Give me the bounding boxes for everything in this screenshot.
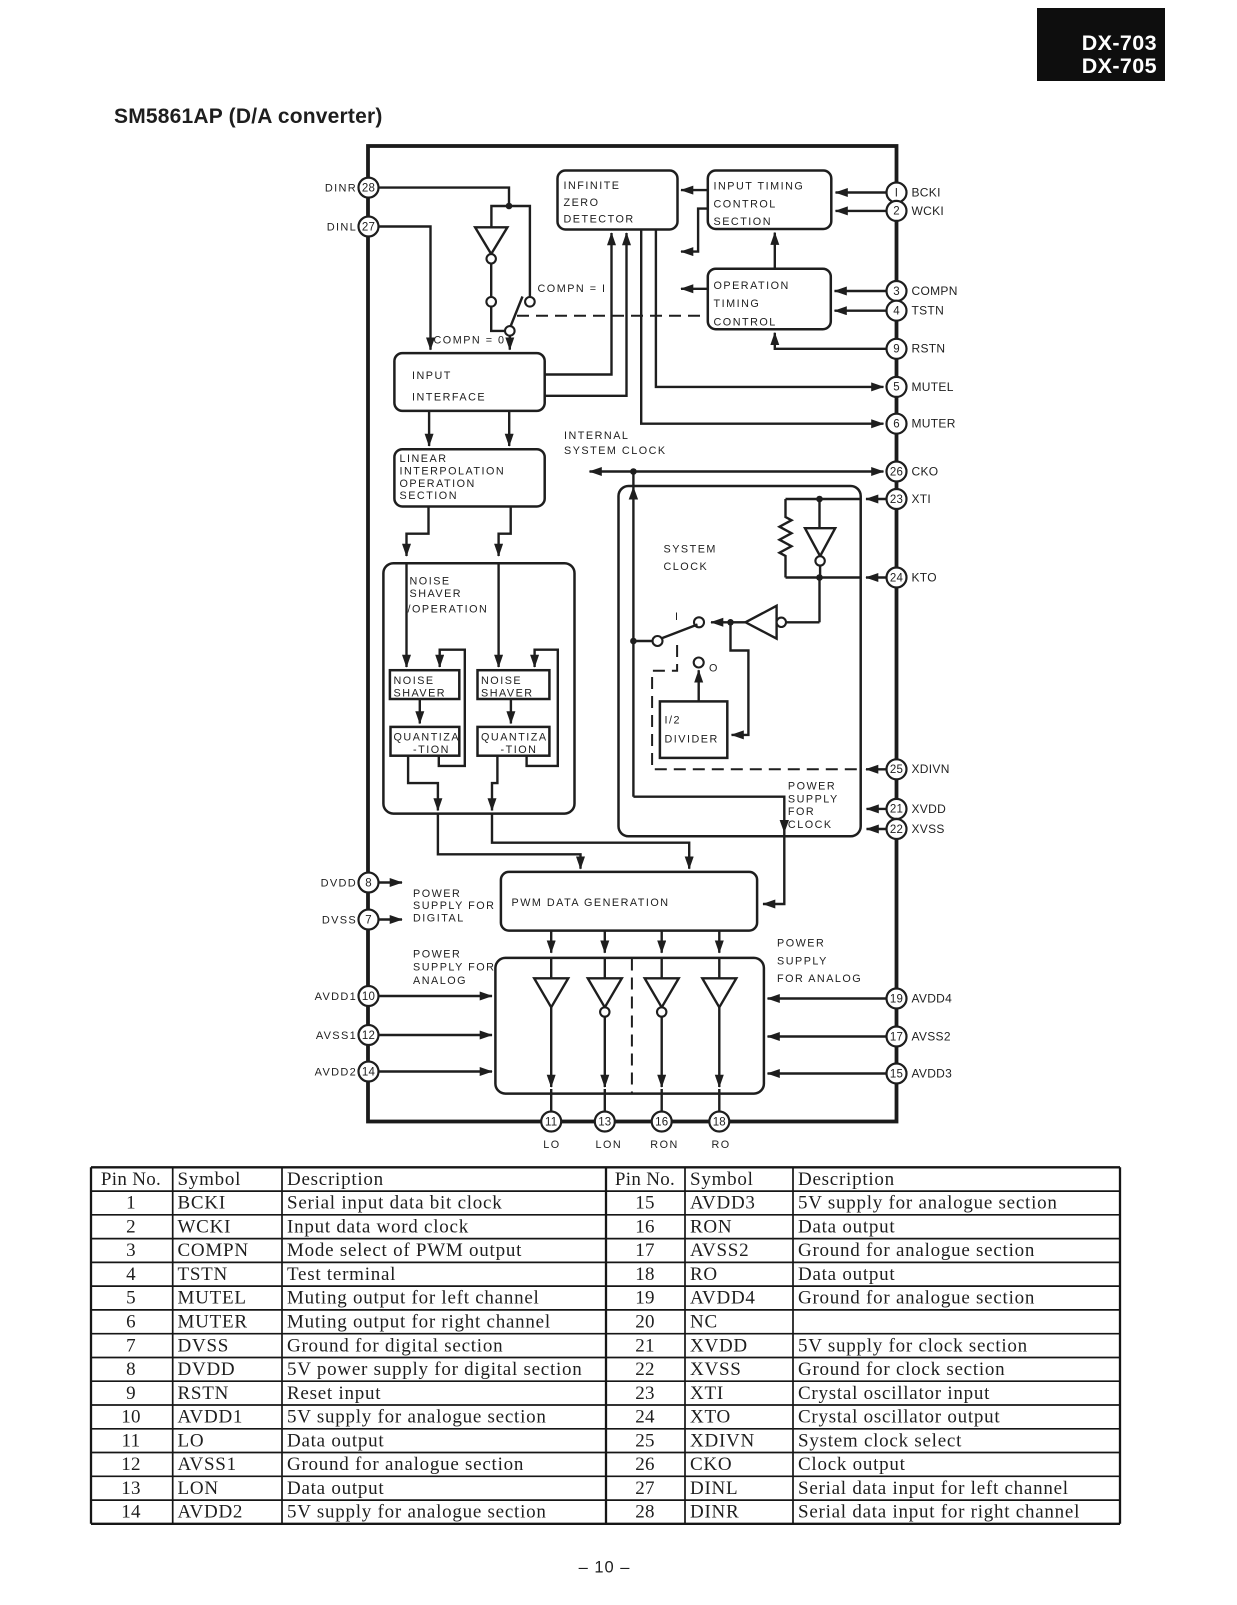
svg-text:POWER: POWER: [777, 938, 825, 950]
pin 25 XDIVN: [866, 759, 950, 779]
svg-text:3: 3: [126, 1240, 136, 1261]
svg-text:SUPPLY FOR: SUPPLY FOR: [413, 962, 495, 974]
pin 5 MUTEL: [887, 377, 954, 397]
node KTO junction: [816, 574, 823, 581]
svg-text:MUTER: MUTER: [178, 1312, 248, 1333]
svg-text:Serial input data bit clock: Serial input data bit clock: [287, 1193, 502, 1214]
svg-text:RSTN: RSTN: [178, 1383, 230, 1404]
wire input interface to zero detector B: [545, 233, 627, 396]
svg-text:RO: RO: [690, 1264, 718, 1285]
svg-text:22: 22: [635, 1359, 655, 1380]
pin 27 DINL: [327, 217, 379, 237]
svg-text:DX-705: DX-705: [1082, 54, 1157, 78]
svg-text:I/2: I/2: [665, 715, 682, 727]
wire operation timing output: [681, 288, 708, 290]
svg-text:Pin No.: Pin No.: [101, 1169, 161, 1190]
svg-text:XTI: XTI: [690, 1383, 724, 1404]
switch contact COMPN=0 side: [486, 297, 496, 307]
amp LO: [534, 958, 568, 1112]
svg-text:12: 12: [362, 1030, 375, 1042]
svg-text:Muting output for right channe: Muting output for right channel: [287, 1312, 551, 1333]
svg-text:Symbol: Symbol: [690, 1169, 754, 1190]
svg-text:XVSS: XVSS: [912, 822, 945, 836]
svg-text:XTI: XTI: [912, 492, 932, 506]
model badge DX-703/DX-705: [1037, 8, 1165, 81]
amp RO: [702, 958, 736, 1112]
svg-text:CKO: CKO: [690, 1454, 732, 1475]
svg-text:19: 19: [890, 993, 903, 1005]
wire buffer to divider input: [731, 622, 749, 735]
svg-text:20: 20: [635, 1312, 655, 1333]
clock select contact half: [694, 658, 704, 668]
block operation timing control: [708, 269, 831, 330]
svg-text:26: 26: [890, 466, 903, 478]
pin description table: [91, 1167, 1120, 1524]
svg-text:DIVIDER: DIVIDER: [665, 734, 719, 746]
svg-text:16: 16: [635, 1216, 655, 1237]
svg-text:DINR: DINR: [325, 183, 357, 195]
svg-text:21: 21: [635, 1335, 655, 1356]
wire KTO to buffer: [818, 578, 820, 623]
svg-text:WCKI: WCKI: [912, 204, 945, 218]
svg-text:18: 18: [635, 1264, 655, 1285]
svg-text:DVSS: DVSS: [178, 1335, 230, 1356]
svg-text:14: 14: [362, 1066, 376, 1078]
svg-text:Ground for digital section: Ground for digital section: [287, 1335, 503, 1356]
dashed COMPN control line: [517, 315, 708, 317]
junction bus: [506, 203, 513, 210]
svg-text:MUTEL: MUTEL: [912, 380, 954, 394]
svg-text:BCKI: BCKI: [178, 1193, 226, 1214]
svg-text:INFINITE: INFINITE: [564, 180, 621, 192]
svg-text:LO: LO: [178, 1430, 205, 1451]
pin 28 DINR: [325, 178, 379, 198]
svg-text:6: 6: [126, 1312, 136, 1333]
wire into noise shaver L: [405, 563, 407, 667]
svg-text:COMPN: COMPN: [912, 284, 958, 298]
wire zero detector to MUTER: [641, 230, 883, 424]
svg-text:Pin No.: Pin No.: [615, 1169, 675, 1190]
svg-text:25: 25: [890, 764, 903, 776]
svg-text:9: 9: [126, 1383, 136, 1404]
wire zero detector to MUTEL: [656, 230, 884, 387]
svg-text:TSTN: TSTN: [912, 304, 945, 318]
inverter (data complement): [475, 227, 507, 263]
pin 11 LO: [541, 1112, 561, 1152]
svg-text:COMPN: COMPN: [178, 1240, 249, 1261]
block quantization left: [391, 727, 461, 756]
svg-text:9: 9: [893, 344, 900, 356]
svg-text:QUANTIZA: QUANTIZA: [481, 732, 548, 744]
svg-text:LON: LON: [596, 1139, 623, 1151]
svg-text:24: 24: [890, 572, 904, 584]
svg-text:8: 8: [126, 1359, 136, 1380]
svg-text:13: 13: [121, 1478, 141, 1499]
label internal system clock: [564, 430, 667, 457]
svg-text:12: 12: [121, 1454, 141, 1475]
svg-text:7: 7: [365, 914, 372, 926]
block infinite zero detector: [558, 171, 678, 230]
pin 13 LON: [595, 1112, 622, 1152]
svg-text:COMPN = 0: COMPN = 0: [434, 335, 506, 347]
svg-text:28: 28: [362, 182, 375, 194]
svg-text:RON: RON: [650, 1139, 679, 1151]
svg-text:SHAVER: SHAVER: [410, 588, 463, 600]
pin 9 RSTN: [775, 333, 946, 359]
wire pole to input interface: [509, 336, 511, 350]
svg-text:CLOCK: CLOCK: [788, 819, 833, 831]
svg-text:SECTION: SECTION: [400, 490, 459, 502]
svg-text:Crystal oscillator output: Crystal oscillator output: [798, 1407, 1000, 1428]
wire noise shaver to quantization L: [419, 699, 421, 724]
svg-text:Serial data input for right ch: Serial data input for right channel: [798, 1502, 1080, 1523]
svg-text:LO: LO: [543, 1139, 560, 1151]
wire contact to pole: [491, 307, 505, 331]
pin 12 AVSS1: [316, 1025, 492, 1045]
svg-text:3: 3: [893, 286, 900, 298]
svg-text:TIMING: TIMING: [714, 298, 761, 310]
svg-text:15: 15: [635, 1193, 655, 1214]
svg-text:Test terminal: Test terminal: [287, 1264, 396, 1285]
svg-text:Data output: Data output: [287, 1478, 384, 1499]
svg-text:O: O: [709, 663, 719, 675]
block linear interpolation operation section: [394, 449, 544, 506]
svg-text:CONTROL: CONTROL: [714, 316, 777, 328]
svg-text:5V supply for analogue section: 5V supply for analogue section: [798, 1193, 1058, 1214]
pin 16 RON: [650, 1112, 679, 1152]
svg-text:Ground for analogue section: Ground for analogue section: [798, 1240, 1035, 1261]
svg-text:Crystal oscillator input: Crystal oscillator input: [798, 1383, 990, 1404]
svg-text:POWER: POWER: [413, 888, 461, 900]
svg-text:AVSS2: AVSS2: [690, 1240, 749, 1261]
svg-text:LINEAR: LINEAR: [400, 453, 448, 465]
switch pole: [505, 297, 523, 336]
svg-text:QUANTIZA: QUANTIZA: [394, 732, 461, 744]
svg-text:INTERPOLATION: INTERPOLATION: [400, 465, 506, 477]
svg-text:Serial data input for left cha: Serial data input for left channel: [798, 1478, 1069, 1499]
svg-text:5V power supply for digital se: 5V power supply for digital section: [287, 1359, 583, 1380]
wire internal system clock to CKO: [590, 468, 884, 475]
svg-text:Description: Description: [287, 1169, 384, 1190]
pin 18 RO: [709, 1112, 730, 1152]
svg-text:10: 10: [121, 1407, 141, 1428]
wire DINR to COMPN switch bus: [379, 188, 510, 206]
block analog output: [495, 958, 764, 1094]
svg-text:24: 24: [635, 1407, 655, 1428]
svg-text:28: 28: [635, 1502, 655, 1523]
svg-text:SUPPLY: SUPPLY: [777, 956, 828, 968]
svg-text:XDIVN: XDIVN: [912, 762, 950, 776]
pin 10 AVDD1: [315, 986, 492, 1006]
svg-text:CLOCK: CLOCK: [664, 561, 709, 573]
svg-text:18: 18: [713, 1116, 726, 1128]
wire interface to interpolation A: [428, 411, 430, 446]
svg-text:11: 11: [122, 1430, 141, 1451]
svg-text:AVDD2: AVDD2: [178, 1502, 244, 1523]
svg-text:AVSS2: AVSS2: [912, 1029, 951, 1043]
svg-text:AVDD4: AVDD4: [912, 991, 953, 1005]
svg-text:FOR: FOR: [788, 806, 815, 818]
amp LON: [588, 958, 622, 1112]
svg-text:Muting output for left channel: Muting output for left channel: [287, 1288, 540, 1309]
pin 17 AVSS2: [768, 1027, 951, 1047]
IC outline box: [368, 146, 897, 1122]
svg-text:Clock output: Clock output: [798, 1454, 906, 1475]
svg-text:OPERATION: OPERATION: [400, 478, 476, 490]
svg-text:16: 16: [655, 1116, 668, 1128]
pin 2 WCKI: [836, 201, 945, 221]
label power supply for digital: [413, 888, 495, 925]
pin 21 XVDD: [867, 799, 947, 819]
wire quantization L out: [408, 756, 580, 869]
svg-text:ANALOG: ANALOG: [413, 975, 467, 987]
wire quantization R out: [492, 756, 689, 869]
svg-text:FOR ANALOG: FOR ANALOG: [777, 973, 862, 985]
svg-text:AVDD2: AVDD2: [315, 1066, 357, 1078]
block PWM data generation: [501, 872, 757, 931]
svg-text:6: 6: [893, 419, 900, 431]
svg-text:XVDD: XVDD: [912, 802, 947, 816]
svg-text:Ground for analogue section: Ground for analogue section: [287, 1454, 524, 1475]
pin 14 AVDD2: [315, 1062, 492, 1082]
wire interface to interpolation B: [508, 411, 510, 446]
svg-text:2: 2: [126, 1216, 136, 1237]
svg-text:5V supply for analogue section: 5V supply for analogue section: [287, 1502, 547, 1523]
svg-text:SUPPLY: SUPPLY: [788, 794, 839, 806]
pin 24 KTO: [786, 568, 937, 588]
svg-text:DX-703: DX-703: [1082, 31, 1157, 55]
pin 7 DVSS: [322, 910, 402, 930]
wire buffer to divider select: [711, 619, 746, 626]
svg-text:NOISE: NOISE: [481, 675, 522, 687]
wire timing section output elbow: [681, 209, 708, 252]
svg-text:AVDD3: AVDD3: [912, 1066, 953, 1080]
svg-text:13: 13: [598, 1116, 611, 1128]
svg-text:DIGITAL: DIGITAL: [413, 913, 465, 925]
wire operation timing to input timing: [774, 233, 776, 269]
svg-text:NOISE: NOISE: [410, 576, 451, 588]
svg-text:SECTION: SECTION: [714, 216, 773, 228]
svg-text:NC: NC: [690, 1312, 718, 1333]
label power supply for analog left: [413, 949, 495, 988]
svg-text:SHAVER: SHAVER: [481, 688, 534, 700]
switch contact COMPN=1 side: [525, 297, 535, 307]
clock buffer inverter: [746, 606, 820, 639]
wire PWM out LON: [604, 931, 606, 953]
svg-text:27: 27: [362, 221, 375, 233]
svg-text:AVDD3: AVDD3: [690, 1193, 756, 1214]
svg-text:AVDD1: AVDD1: [178, 1407, 244, 1428]
svg-text:PWM DATA GENERATION: PWM DATA GENERATION: [512, 897, 670, 909]
pin 15 AVDD3: [768, 1064, 953, 1084]
svg-text:SYSTEM: SYSTEM: [664, 544, 717, 556]
pin 22 XVSS: [867, 819, 945, 839]
pin 4 TSTN: [835, 301, 945, 321]
svg-text:SUPPLY FOR: SUPPLY FOR: [413, 900, 495, 912]
pin 6 MUTER: [887, 414, 956, 434]
block noise shaver left: [390, 670, 459, 699]
block quantization right: [478, 727, 550, 756]
svg-text:CONTROL: CONTROL: [714, 199, 777, 211]
svg-text:MUTER: MUTER: [912, 417, 956, 431]
svg-text:5: 5: [893, 382, 900, 394]
svg-text:14: 14: [121, 1502, 141, 1523]
svg-text:7: 7: [126, 1335, 136, 1356]
wire interpolation to noise shaver L: [407, 507, 429, 557]
svg-text:WCKI: WCKI: [178, 1216, 232, 1237]
pin 19 AVDD4: [768, 989, 953, 1009]
svg-text:-TION: -TION: [501, 744, 538, 756]
svg-text:RSTN: RSTN: [912, 342, 946, 356]
svg-text:AVDD4: AVDD4: [690, 1288, 756, 1309]
svg-text:DVDD: DVDD: [321, 877, 357, 889]
svg-text:Input data word clock: Input data word clock: [287, 1216, 469, 1237]
svg-text:XDIVN: XDIVN: [690, 1430, 755, 1451]
svg-text:KTO: KTO: [912, 570, 937, 584]
svg-text:AVSS1: AVSS1: [316, 1030, 357, 1042]
svg-text:Reset input: Reset input: [287, 1383, 381, 1404]
svg-text:I: I: [895, 187, 898, 199]
svg-text:DINR: DINR: [690, 1502, 739, 1523]
svg-text:OPERATION: OPERATION: [714, 280, 790, 292]
wire interpolation to noise shaver R: [499, 507, 511, 557]
svg-text:Symbol: Symbol: [178, 1169, 242, 1190]
junction pole to riser: [630, 638, 652, 645]
svg-text:SYSTEM CLOCK: SYSTEM CLOCK: [564, 445, 667, 457]
pin 3 COMPN: [835, 281, 958, 301]
svg-text:LON: LON: [178, 1478, 219, 1499]
svg-text:-TION: -TION: [413, 744, 450, 756]
svg-text:17: 17: [635, 1240, 655, 1261]
wire system clock riser: [629, 472, 638, 797]
svg-text:Data output: Data output: [287, 1430, 384, 1451]
svg-text:23: 23: [635, 1383, 655, 1404]
svg-text:2: 2: [893, 206, 900, 218]
block noise shaver operation: [383, 563, 574, 813]
svg-text:RO: RO: [712, 1139, 731, 1151]
pin 23 XTI: [786, 489, 932, 509]
svg-text:AVSS1: AVSS1: [178, 1454, 237, 1475]
svg-text:4: 4: [893, 306, 900, 318]
wire divider to contact: [698, 670, 700, 701]
svg-text:DETECTOR: DETECTOR: [564, 213, 635, 225]
svg-text:CKO: CKO: [912, 464, 939, 478]
wire clock to PWM: [633, 797, 789, 904]
pin 26 CKO: [887, 462, 939, 482]
svg-text:XVSS: XVSS: [690, 1359, 742, 1380]
block system clock: [619, 486, 861, 836]
svg-text:INTERNAL: INTERNAL: [564, 430, 629, 442]
svg-text:11: 11: [545, 1116, 557, 1128]
node XTI junction: [816, 496, 823, 503]
svg-text:25: 25: [635, 1430, 655, 1451]
wire PWM out LO: [550, 931, 552, 953]
svg-text:22: 22: [890, 824, 903, 836]
pin 1 BCKI: [836, 183, 941, 203]
dashed divider select control: [652, 645, 860, 769]
pin 8 DVDD: [321, 873, 402, 893]
wire quantization feedback L: [439, 650, 465, 766]
svg-text:1: 1: [126, 1193, 136, 1214]
svg-text:Ground for analogue section: Ground for analogue section: [798, 1288, 1035, 1309]
wire switch bus: [491, 206, 530, 297]
svg-text:MUTEL: MUTEL: [178, 1288, 247, 1309]
wire quantization feedback R: [527, 650, 558, 766]
svg-text:– 10 –: – 10 –: [579, 1559, 631, 1577]
svg-text:27: 27: [635, 1478, 655, 1499]
svg-text:Mode select of PWM output: Mode select of PWM output: [287, 1240, 522, 1261]
svg-text:INPUT TIMING: INPUT TIMING: [714, 181, 805, 193]
wire DINL to input interface: [379, 227, 431, 350]
svg-text:RON: RON: [690, 1216, 732, 1237]
svg-text:17: 17: [890, 1031, 903, 1043]
block input interface: [394, 353, 544, 411]
wire into noise shaver R: [497, 563, 499, 667]
svg-text:BCKI: BCKI: [912, 185, 941, 199]
wire input interface to zero detector A: [545, 233, 612, 375]
label power supply for clock: [788, 780, 839, 831]
svg-text:/OPERATION: /OPERATION: [408, 604, 489, 616]
svg-text:10: 10: [362, 991, 375, 1003]
clock select pole: [653, 625, 698, 647]
svg-text:Data output: Data output: [798, 1216, 895, 1237]
svg-text:INPUT: INPUT: [412, 370, 452, 382]
clock select contact 1x: [694, 617, 704, 627]
svg-text:XVDD: XVDD: [690, 1335, 748, 1356]
svg-text:ZERO: ZERO: [564, 197, 600, 209]
svg-text:XTO: XTO: [690, 1407, 731, 1428]
svg-text:26: 26: [635, 1454, 655, 1475]
svg-text:19: 19: [635, 1288, 655, 1309]
svg-text:4: 4: [126, 1264, 136, 1285]
svg-text:5V supply for clock section: 5V supply for clock section: [798, 1335, 1028, 1356]
svg-text:8: 8: [365, 877, 372, 889]
svg-text:23: 23: [890, 494, 903, 506]
svg-text:Ground for clock section: Ground for clock section: [798, 1359, 1005, 1380]
svg-text:5V supply for analogue section: 5V supply for analogue section: [287, 1407, 547, 1428]
wire timing control to zero detector: [681, 189, 708, 191]
wire PWM out RON: [661, 931, 663, 953]
block noise shaver right: [478, 670, 550, 699]
svg-text:NOISE: NOISE: [394, 675, 435, 687]
svg-text:21: 21: [890, 804, 903, 816]
svg-text:SM5861AP (D/A converter): SM5861AP (D/A converter): [114, 105, 383, 128]
wire PWM out RO: [718, 931, 720, 953]
resistor crystal feedback: [780, 499, 792, 578]
dashed channel separator: [631, 959, 633, 1094]
amp RON: [645, 958, 679, 1112]
svg-text:DINL: DINL: [690, 1478, 738, 1499]
svg-text:System clock select: System clock select: [798, 1430, 962, 1451]
svg-text:AVDD1: AVDD1: [315, 991, 357, 1003]
svg-text:COMPN = I: COMPN = I: [538, 283, 607, 295]
svg-text:INTERFACE: INTERFACE: [412, 392, 486, 404]
svg-text:POWER: POWER: [788, 780, 836, 792]
svg-text:Description: Description: [798, 1169, 895, 1190]
block 1/2 divider: [660, 701, 727, 758]
svg-text:I: I: [675, 611, 680, 623]
svg-text:SHAVER: SHAVER: [394, 688, 447, 700]
label power supply for analog right: [777, 938, 862, 986]
svg-text:5: 5: [126, 1288, 136, 1309]
svg-text:DVDD: DVDD: [178, 1359, 236, 1380]
oscillator inverter: [805, 499, 835, 578]
wire inverter to switch contact: [490, 264, 492, 298]
svg-text:TSTN: TSTN: [178, 1264, 229, 1285]
block input timing control section: [708, 171, 832, 230]
wire noise shaver to quantization R: [510, 699, 512, 724]
svg-text:DINL: DINL: [327, 221, 357, 233]
